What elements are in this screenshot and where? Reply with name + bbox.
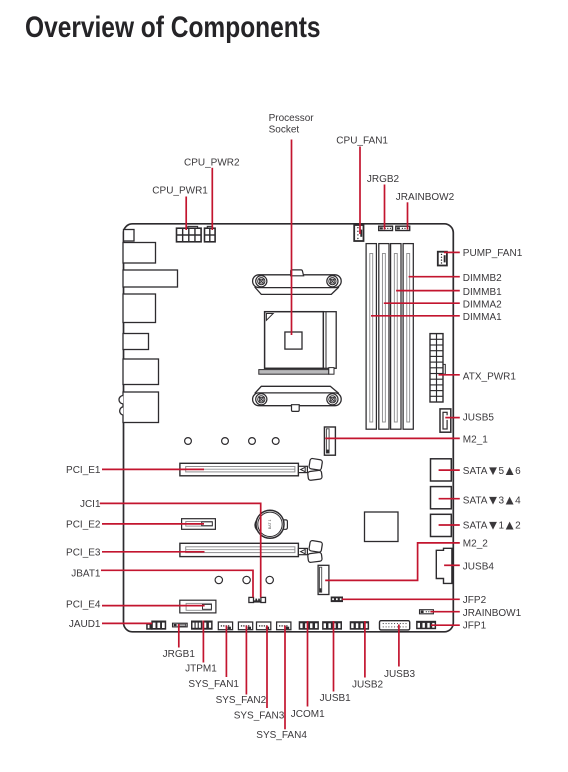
svg-text:DIMMB2: DIMMB2 — [463, 273, 502, 284]
svg-text:JRGB1: JRGB1 — [163, 649, 196, 660]
svg-text:CPU_PWR2: CPU_PWR2 — [184, 158, 240, 169]
svg-text:ATX_PWR1: ATX_PWR1 — [463, 371, 517, 382]
svg-text:JUSB4: JUSB4 — [463, 561, 495, 572]
svg-text:BAT 1: BAT 1 — [268, 519, 272, 529]
svg-text:JTPM1: JTPM1 — [185, 664, 217, 675]
svg-text:JUSB2: JUSB2 — [352, 679, 384, 690]
svg-text:PUMP_FAN1: PUMP_FAN1 — [463, 248, 523, 259]
svg-text:SYS_FAN4: SYS_FAN4 — [256, 730, 307, 741]
svg-text:JRAINBOW2: JRAINBOW2 — [396, 192, 455, 203]
svg-text:DIMMA2: DIMMA2 — [463, 300, 502, 311]
svg-text:JFP2: JFP2 — [463, 595, 487, 606]
svg-text:M2_2: M2_2 — [463, 538, 488, 549]
svg-text:JUSB3: JUSB3 — [384, 669, 416, 680]
svg-text:SYS_FAN2: SYS_FAN2 — [216, 695, 267, 706]
svg-text:JUSB5: JUSB5 — [463, 413, 495, 424]
svg-text:PCI_E4: PCI_E4 — [66, 600, 101, 611]
svg-text:PCI_E3: PCI_E3 — [66, 547, 101, 558]
svg-text:JRGB2: JRGB2 — [367, 174, 400, 185]
svg-text:JCI1: JCI1 — [80, 499, 101, 510]
svg-text:CPU_FAN1: CPU_FAN1 — [336, 136, 388, 147]
svg-text:SYS_FAN1: SYS_FAN1 — [188, 679, 239, 690]
svg-text:Processor: Processor — [269, 113, 315, 124]
svg-text:DIMMA1: DIMMA1 — [463, 312, 502, 323]
svg-text:JAUD1: JAUD1 — [69, 619, 101, 630]
svg-text:JCOM1: JCOM1 — [291, 709, 325, 720]
svg-text:JUSB1: JUSB1 — [320, 693, 352, 704]
svg-text:JRAINBOW1: JRAINBOW1 — [463, 608, 522, 619]
svg-text:SYS_FAN3: SYS_FAN3 — [234, 711, 285, 722]
svg-text:M2_1: M2_1 — [463, 434, 488, 445]
svg-text:PCI_E2: PCI_E2 — [66, 520, 101, 531]
svg-text:JFP1: JFP1 — [463, 620, 487, 631]
svg-text:SATA▼1▲2: SATA▼1▲2 — [463, 518, 521, 533]
svg-text:JBAT1: JBAT1 — [71, 568, 101, 579]
svg-text:PCI_E1: PCI_E1 — [66, 465, 101, 476]
svg-text:DIMMB1: DIMMB1 — [463, 287, 502, 298]
svg-text:SATA▼5▲6: SATA▼5▲6 — [463, 463, 521, 478]
svg-text:SATA▼3▲4: SATA▼3▲4 — [463, 492, 521, 507]
svg-text:CPU_PWR1: CPU_PWR1 — [152, 186, 208, 197]
svg-text:Socket: Socket — [269, 124, 300, 135]
